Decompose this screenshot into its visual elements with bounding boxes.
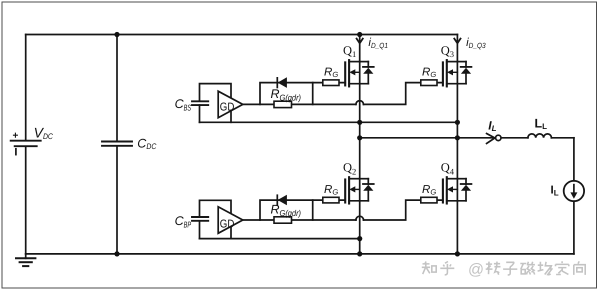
svg-text:RG: RG [324,184,338,196]
svg-text:RG: RG [422,67,436,79]
svg-text:RG(gdr): RG(gdr) [271,203,302,218]
svg-text:Q1: Q1 [343,43,356,59]
svg-text:+: + [13,131,19,142]
svg-text:CBS: CBS [175,97,192,113]
svg-text:iD_Q1: iD_Q1 [368,37,388,50]
svg-text:Q4: Q4 [441,161,455,177]
svg-text:@: @ [468,262,484,279]
svg-text:GD: GD [220,219,235,231]
svg-text:RG(gdr): RG(gdr) [271,87,302,102]
svg-text:CBP: CBP [175,214,192,230]
svg-text:VDC: VDC [34,125,54,142]
svg-text:Q3: Q3 [441,43,454,59]
svg-text:RG: RG [324,67,338,79]
svg-text:iD_Q3: iD_Q3 [466,37,486,50]
svg-text:IL: IL [551,185,559,198]
svg-text:GD: GD [220,102,235,114]
svg-text:IL: IL [488,118,496,133]
svg-text:LL: LL [535,116,548,131]
svg-text:RG: RG [422,184,436,196]
svg-text:CDC: CDC [137,136,156,151]
svg-text:Q2: Q2 [343,161,356,177]
